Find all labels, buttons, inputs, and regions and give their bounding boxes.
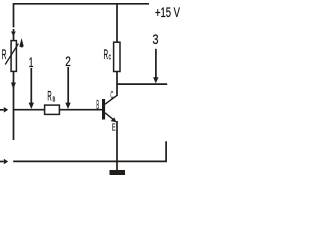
svg-text:2: 2	[65, 53, 71, 69]
svg-text:C: C	[110, 90, 113, 102]
svg-text:B: B	[96, 97, 99, 112]
svg-text:C: C	[109, 53, 112, 62]
svg-text:+15 V: +15 V	[155, 4, 180, 20]
svg-text:R: R	[47, 87, 51, 103]
svg-text:B: B	[53, 95, 56, 104]
svg-text:E: E	[112, 122, 116, 133]
svg-text:R: R	[2, 46, 7, 62]
svg-text:R: R	[104, 46, 109, 62]
svg-text:3: 3	[153, 31, 159, 47]
svg-text:1: 1	[29, 54, 34, 70]
